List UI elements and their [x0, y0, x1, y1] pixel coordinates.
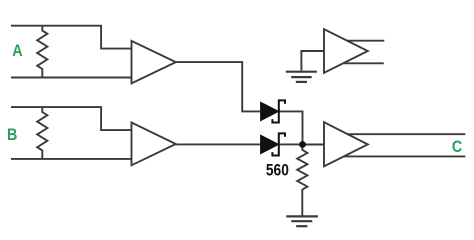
wire A top [11, 26, 132, 49]
wire U4 output bottom [344, 62, 384, 64]
resistor RA [37, 26, 47, 78]
resistor R560 [297, 145, 307, 216]
wire D1 cathode to junction [279, 111, 303, 144]
svg-text:C: C [452, 138, 462, 156]
wire junction to U3 [303, 144, 325, 146]
buffer U2 [132, 123, 176, 166]
buffer U4 [324, 29, 368, 73]
buffer U1 [132, 41, 176, 84]
diode D2 [261, 133, 285, 155]
ground GND2 [286, 72, 317, 82]
wire U4 output top [347, 40, 384, 42]
wire U4 input [301, 51, 324, 71]
junction node [299, 141, 306, 148]
ground GND1 [286, 216, 318, 226]
resistor RB [37, 107, 47, 159]
buffer U3 [324, 122, 368, 166]
wire D2 cathode to junction [279, 143, 303, 145]
wire U3 output top [347, 133, 465, 135]
svg-text:B: B [7, 126, 17, 144]
wire A bottom [11, 77, 132, 79]
wire U2 output [176, 143, 261, 145]
svg-text:560: 560 [266, 161, 289, 179]
wire B bottom [11, 158, 132, 160]
svg-text:A: A [12, 42, 22, 60]
wire B top [11, 107, 132, 130]
wire U1 output [176, 62, 261, 111]
wire U3 output bottom [344, 155, 465, 157]
diode D1 [261, 100, 285, 122]
